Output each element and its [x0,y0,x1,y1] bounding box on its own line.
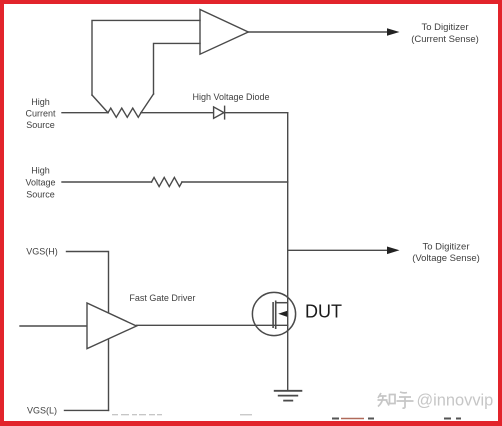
wire High Voltage Source to R2 [62,181,152,183]
svg-text:(Voltage Sense): (Voltage Sense) [412,253,480,264]
wire main vertical bus (drain node) [287,113,289,391]
arrowhead to digitizer voltage sense [387,247,400,255]
svg-text:VGS(H): VGS(H) [26,247,58,257]
op-amp U1 current sense amplifier [200,10,248,55]
wire U1 second input [154,43,201,94]
label To Digitizer (Voltage Sense) [412,241,480,264]
svg-text:@innovvip: @innovvip [417,391,494,409]
svg-text:VGS(L): VGS(L) [27,405,57,415]
body diode arrow of Q1 [278,311,287,317]
arrowhead to digitizer current sense [387,28,400,36]
wire voltage sense tap [288,249,389,251]
label To Digitizer (Current Sense) [411,22,479,45]
svg-text:Source: Source [26,190,55,200]
svg-text:Source: Source [26,120,55,130]
wire diagonal U1 top input to resistor R1 left end [92,95,108,113]
wire High Current Source to R1 [62,112,108,114]
label High Current Source [25,97,56,130]
resistor R2 high voltage source series [152,177,183,186]
wire D1 cathode to main bus node [225,112,288,114]
wire U1 non-inverting input top [92,20,200,95]
watermark zhihu @innovvip [378,392,414,408]
wire VGS(H) to gate bus [67,252,109,411]
ground [274,391,303,401]
wire R1 to diode D1 [141,112,214,114]
wire gate driver output to DUT gate and source stub to bus [137,324,288,326]
wire U1 output to current-sense arrow [248,31,389,33]
svg-text:DUT: DUT [305,302,342,322]
wire VGS(L) [65,409,109,411]
svg-text:(Current Sense): (Current Sense) [411,34,479,45]
op-amp U2 fast gate driver [87,303,137,349]
svg-text:To Digitizer: To Digitizer [423,241,470,252]
svg-text:Voltage: Voltage [25,178,55,188]
artifact remnants above bottom bar [112,414,252,416]
svg-text:High: High [31,166,50,176]
wire R2 to main bus [182,181,288,183]
border frame [0,0,502,4]
svg-text:High Voltage Diode: High Voltage Diode [192,92,269,102]
diode D1 high voltage diode [214,107,224,118]
label High Voltage Source [25,166,55,200]
wire diagonal U1 second input to resistor R1 right end [141,94,154,113]
svg-text:High: High [31,97,50,107]
transistor Q1 DUT MOSFET [252,292,295,335]
svg-text:Fast Gate Driver: Fast Gate Driver [129,293,195,303]
svg-text:To Digitizer: To Digitizer [422,22,469,33]
wire gate driver input [20,325,87,327]
resistor R1 current shunt [108,108,141,117]
svg-text:Current: Current [25,108,56,118]
